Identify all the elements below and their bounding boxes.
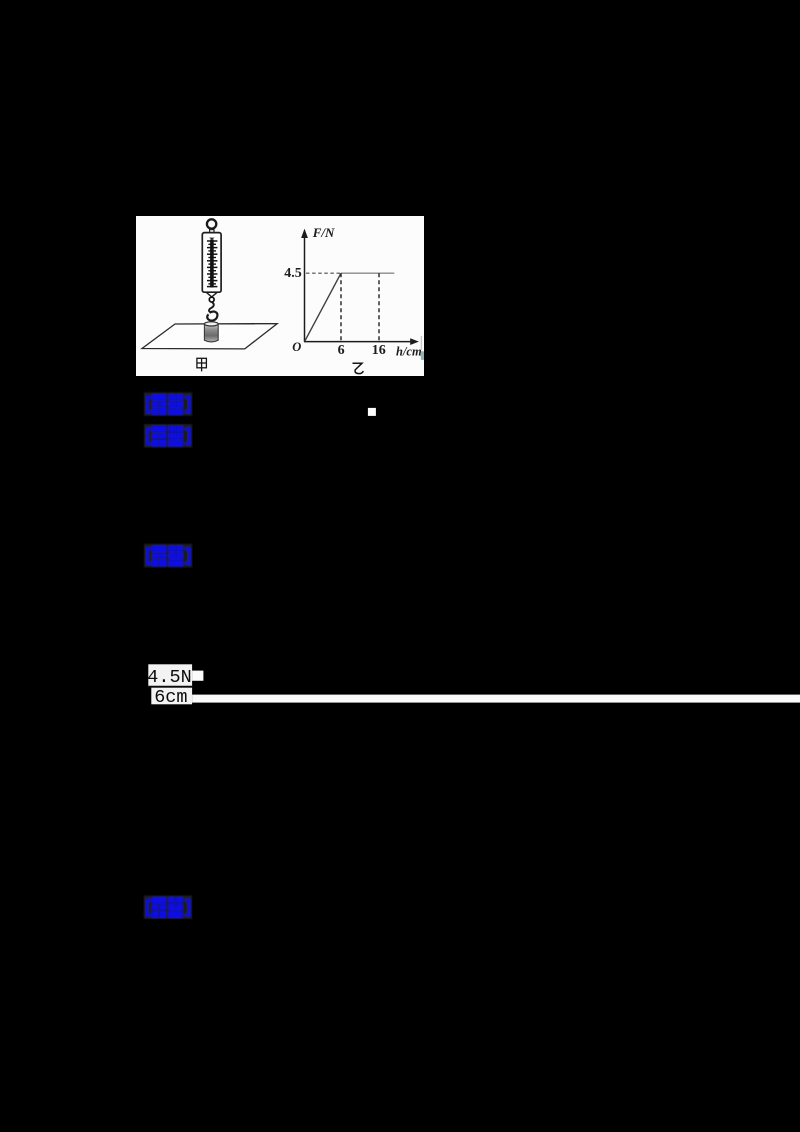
svg-text:O: O [292, 340, 301, 354]
svg-text:h/cm: h/cm [396, 345, 422, 359]
yi label (乙) [353, 363, 364, 373]
origin O [292, 340, 301, 354]
dashed line to 4.5 [306, 272, 341, 274]
right edge artifacts [421, 336, 424, 360]
F/N axis label [312, 225, 335, 240]
svg-text:6cm: 6cm [154, 687, 187, 708]
svg-text:6: 6 [338, 343, 345, 358]
fraction bar [148, 686, 192, 688]
h/cm axis label [396, 345, 422, 359]
spring scale neck [210, 230, 214, 233]
parallelogram plane [142, 324, 277, 349]
spring scale graduations [207, 240, 217, 288]
graph x axis [304, 338, 419, 345]
cylinder weight [204, 322, 218, 342]
blue label answer [144, 392, 192, 416]
graph y axis [301, 229, 308, 342]
svg-text:16: 16 [372, 343, 386, 358]
figure white panel [136, 216, 424, 376]
blue label detail [144, 544, 192, 568]
fraction numerator box [147, 664, 203, 688]
spring scale body [202, 233, 221, 293]
svg-text:F/N: F/N [312, 225, 335, 240]
fraction denominator box [151, 687, 192, 708]
white square bullet [368, 408, 376, 416]
svg-text:4.5N: 4.5N [147, 667, 191, 688]
spring scale bottom notch [206, 292, 217, 297]
tick 16 [372, 343, 386, 358]
4.5 tick label [284, 266, 302, 281]
ramp segment [305, 273, 341, 341]
tick 6 [338, 343, 345, 358]
blue label analysis [144, 424, 192, 448]
spring scale link circle [209, 297, 214, 302]
dashed vertical at 6 [340, 273, 342, 341]
dashed vertical at 16 [378, 273, 380, 341]
flat gray segment [341, 272, 394, 274]
spring scale ring [207, 219, 216, 228]
S hook [207, 302, 217, 321]
blue label keypoint [144, 895, 192, 919]
white strip [192, 695, 800, 703]
svg-text:4.5: 4.5 [284, 266, 302, 281]
jia label (甲) [197, 358, 207, 371]
